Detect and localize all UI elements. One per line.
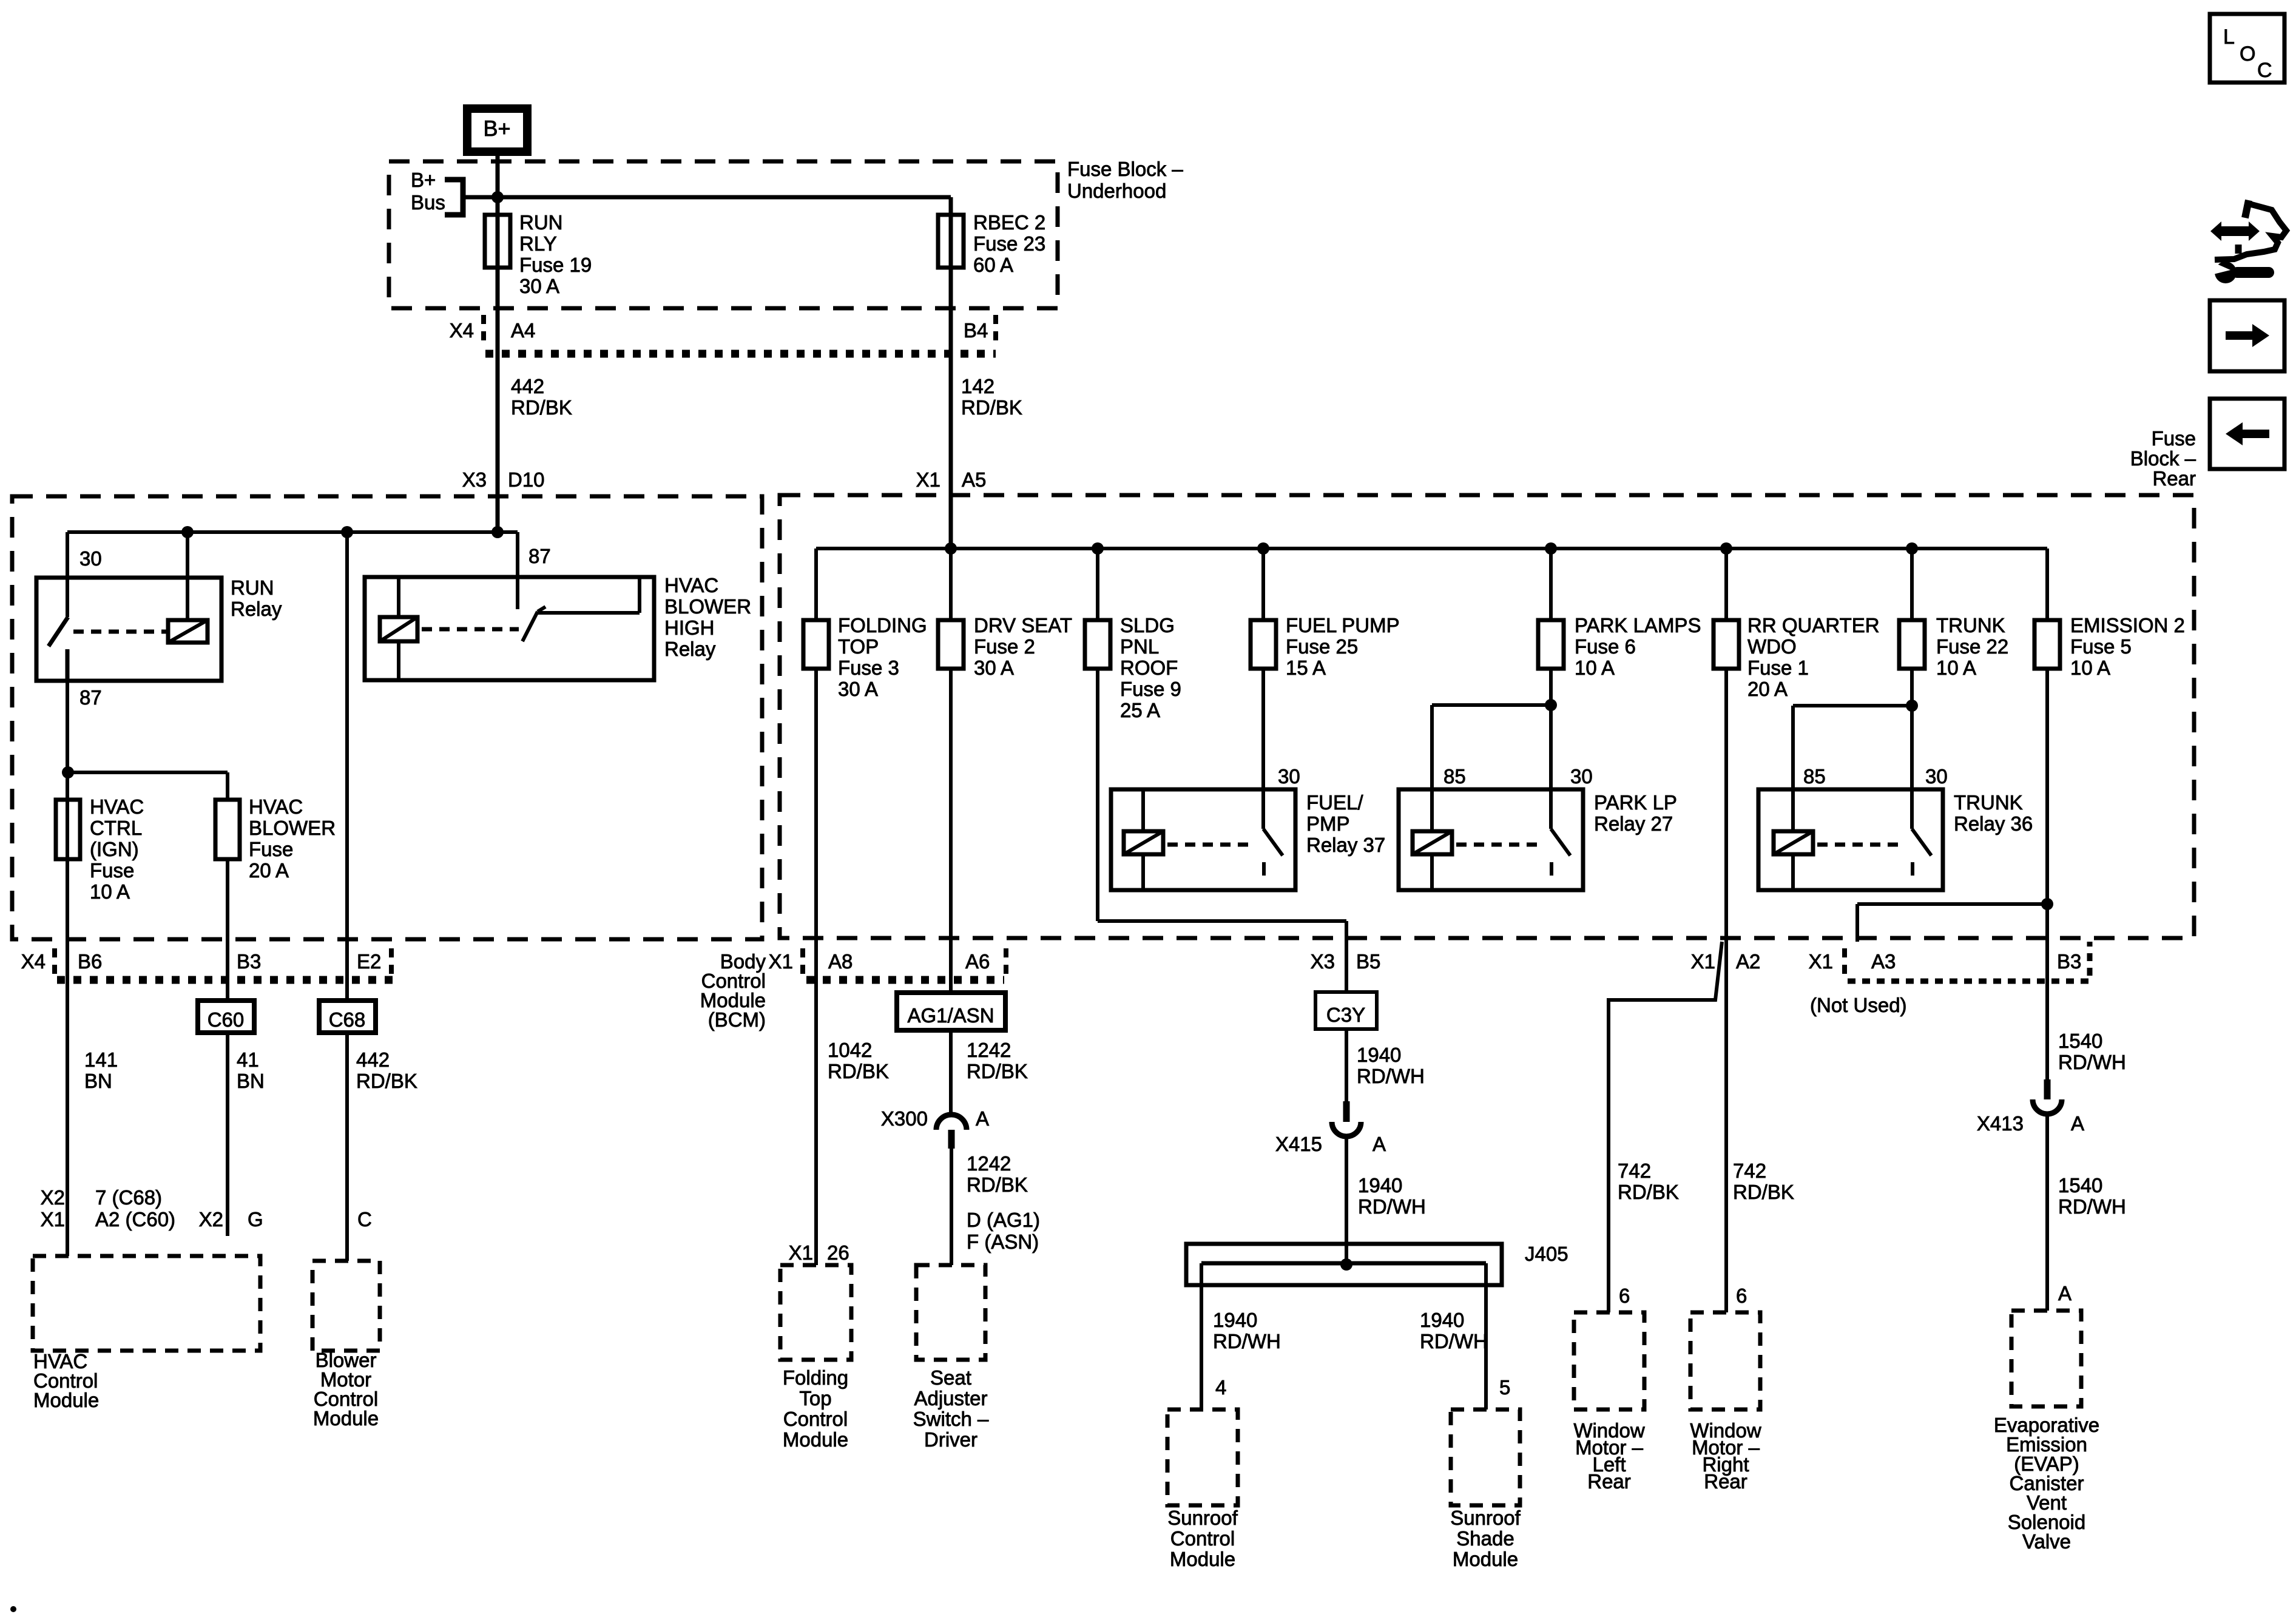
svg-text:C3Y: C3Y [1326,1004,1365,1026]
svg-text:Fuse: Fuse [2152,427,2196,450]
svg-text:HVAC: HVAC [90,795,144,818]
svg-text:(IGN): (IGN) [90,838,139,860]
svg-text:BLOWER: BLOWER [249,817,336,839]
svg-text:141: 141 [84,1048,118,1071]
svg-text:A4: A4 [511,319,535,342]
svg-text:Module: Module [1453,1548,1518,1570]
svg-text:Fuse 22: Fuse 22 [1936,635,2008,658]
svg-text:A2: A2 [1736,950,1760,973]
svg-text:X300: X300 [881,1107,928,1130]
svg-text:RD/WH: RD/WH [1420,1330,1488,1352]
svg-text:742: 742 [1618,1160,1651,1182]
svg-text:1540: 1540 [2058,1030,2102,1052]
svg-text:26: 26 [827,1241,849,1264]
svg-text:C60: C60 [208,1008,245,1031]
svg-text:Fuse 5: Fuse 5 [2070,635,2132,658]
svg-text:A8: A8 [828,950,853,973]
svg-text:Seat: Seat [930,1366,971,1389]
svg-text:15 A: 15 A [1286,657,1326,679]
svg-text:1540: 1540 [2058,1174,2102,1197]
svg-text:Relay: Relay [664,638,716,660]
svg-text:C: C [2257,59,2272,82]
svg-text:85: 85 [1443,765,1466,788]
svg-text:RD/WH: RD/WH [2058,1051,2126,1073]
svg-text:Switch –: Switch – [913,1408,989,1430]
svg-text:Fuse 25: Fuse 25 [1286,635,1358,658]
svg-text:6: 6 [1619,1284,1630,1307]
svg-text:Fuse 1: Fuse 1 [1747,657,1809,679]
svg-text:D (AG1): D (AG1) [967,1209,1040,1231]
svg-text:G: G [248,1208,263,1230]
svg-text:10 A: 10 A [1575,657,1615,679]
svg-text:RD/BK: RD/BK [1733,1181,1794,1203]
svg-text:ROOF: ROOF [1120,657,1178,679]
svg-text:442: 442 [356,1048,390,1071]
svg-text:Relay 36: Relay 36 [1954,812,2033,835]
svg-text:B3: B3 [2057,950,2081,973]
svg-text:Rear: Rear [2152,467,2196,490]
svg-text:(BCM): (BCM) [708,1008,766,1031]
svg-text:10 A: 10 A [2070,657,2110,679]
svg-text:B3: B3 [237,950,261,973]
svg-text:Fuse 6: Fuse 6 [1575,635,1636,658]
svg-text:A3: A3 [1871,950,1896,973]
svg-text:1940: 1940 [1213,1309,1257,1331]
svg-text:RD/WH: RD/WH [2058,1195,2126,1218]
svg-text:X2: X2 [199,1208,223,1230]
svg-text:RUN: RUN [519,211,563,234]
svg-text:25 A: 25 A [1120,699,1160,721]
svg-text:X1: X1 [916,468,940,491]
svg-text:FUEL PUMP: FUEL PUMP [1286,614,1400,636]
svg-text:10 A: 10 A [90,880,130,903]
svg-text:1242: 1242 [967,1152,1011,1175]
svg-text:PMP: PMP [1306,812,1350,835]
svg-text:RD/BK: RD/BK [967,1060,1028,1082]
svg-text:Module: Module [33,1389,99,1411]
svg-text:X3: X3 [462,468,487,491]
svg-text:FOLDING: FOLDING [838,614,927,636]
svg-text:BLOWER: BLOWER [664,595,751,618]
svg-text:X1: X1 [1691,950,1715,973]
svg-text:Fuse 2: Fuse 2 [974,635,1035,658]
svg-text:30: 30 [1570,765,1593,788]
svg-text:Driver: Driver [924,1428,977,1451]
svg-text:HVAC: HVAC [664,574,718,596]
svg-text:20 A: 20 A [1747,678,1788,700]
svg-text:CTRL: CTRL [90,817,142,839]
svg-text:B6: B6 [78,950,102,973]
svg-text:X1: X1 [1809,950,1833,973]
svg-text:41: 41 [237,1048,259,1071]
svg-text:Relay 37: Relay 37 [1306,834,1385,856]
svg-text:Control: Control [783,1408,848,1430]
svg-text:Rear: Rear [1587,1470,1631,1493]
svg-text:RD/BK: RD/BK [828,1060,889,1082]
svg-text:X1: X1 [769,950,793,973]
svg-text:A: A [2071,1112,2084,1135]
svg-text:AG1/ASN: AG1/ASN [907,1004,994,1027]
svg-text:Relay 27: Relay 27 [1594,812,1673,835]
svg-text:PARK LAMPS: PARK LAMPS [1575,614,1701,636]
svg-text:Control: Control [1170,1527,1235,1550]
svg-text:E2: E2 [357,950,381,973]
svg-text:RD/BK: RD/BK [1618,1181,1679,1203]
svg-text:BN: BN [237,1070,265,1092]
svg-text:Underhood: Underhood [1067,180,1166,202]
svg-text:RD/BK: RD/BK [967,1173,1028,1196]
svg-text:A: A [2058,1282,2071,1305]
svg-text:A6: A6 [965,950,990,973]
svg-text:87: 87 [528,545,551,567]
svg-text:WDO: WDO [1747,635,1797,658]
svg-text:J405: J405 [1525,1243,1568,1265]
svg-text:C68: C68 [329,1008,366,1031]
svg-text:EMISSION 2: EMISSION 2 [2070,614,2185,636]
svg-text:X4: X4 [21,950,46,973]
svg-text:X4: X4 [450,319,474,342]
svg-text:Module: Module [1170,1548,1235,1570]
svg-text:30: 30 [79,547,102,570]
svg-text:Rear: Rear [1704,1470,1747,1493]
svg-text:Adjuster: Adjuster [914,1387,987,1409]
svg-text:RD/WH: RD/WH [1213,1330,1281,1352]
svg-text:D10: D10 [508,468,545,491]
svg-text:Sunroof: Sunroof [1167,1507,1238,1529]
svg-text:B+: B+ [411,169,436,191]
svg-text:RLY: RLY [519,232,557,255]
svg-text:Fuse Block –: Fuse Block – [1067,158,1183,180]
svg-text:Fuse: Fuse [249,838,293,860]
svg-text:X1: X1 [789,1241,813,1264]
svg-text:1940: 1940 [1358,1174,1402,1197]
svg-text:RD/BK: RD/BK [511,396,572,419]
svg-text:TOP: TOP [838,635,879,658]
svg-text:B5: B5 [1356,950,1380,973]
svg-text:X2: X2 [41,1186,65,1209]
svg-text:Fuse 3: Fuse 3 [838,657,899,679]
svg-text:4: 4 [1215,1376,1226,1399]
svg-text:X415: X415 [1275,1133,1322,1155]
svg-text:1042: 1042 [828,1039,872,1061]
svg-text:6: 6 [1736,1284,1747,1307]
svg-text:RR QUARTER: RR QUARTER [1747,614,1880,636]
svg-text:A2 (C60): A2 (C60) [95,1208,175,1230]
svg-text:RBEC 2: RBEC 2 [973,211,1045,234]
svg-text:B4: B4 [964,319,988,342]
svg-text:30 A: 30 A [519,275,559,297]
svg-text:TRUNK: TRUNK [1936,614,2005,636]
svg-text:O: O [2240,42,2255,66]
svg-text:TRUNK: TRUNK [1954,791,2023,814]
svg-text:RD/WH: RD/WH [1358,1195,1426,1218]
svg-text:Top: Top [799,1387,831,1409]
svg-text:A: A [1373,1133,1386,1155]
svg-text:BN: BN [84,1070,112,1092]
svg-text:1242: 1242 [967,1039,1011,1061]
svg-text:SLDG: SLDG [1120,614,1175,636]
svg-text:X3: X3 [1311,950,1335,973]
svg-text:30 A: 30 A [974,657,1014,679]
svg-text:1940: 1940 [1357,1044,1401,1066]
svg-text:RUN: RUN [231,576,274,599]
svg-text:A: A [976,1107,989,1130]
svg-text:20 A: 20 A [249,859,289,882]
svg-text:Bus: Bus [411,191,445,214]
svg-text:RD/BK: RD/BK [356,1070,417,1092]
svg-text:(Not Used): (Not Used) [1810,994,1907,1016]
svg-text:Block –: Block – [2130,447,2196,470]
svg-text:142: 142 [961,375,994,397]
svg-text:X1: X1 [41,1208,65,1230]
svg-text:30: 30 [1278,765,1300,788]
svg-text:60 A: 60 A [973,254,1013,276]
svg-text:Sunroof: Sunroof [1450,1507,1521,1529]
svg-text:Valve: Valve [2022,1530,2071,1553]
svg-text:Module: Module [783,1428,848,1451]
svg-text:1940: 1940 [1420,1309,1464,1331]
svg-text:5: 5 [1499,1376,1510,1399]
svg-text:X413: X413 [1977,1112,2024,1135]
svg-text:FUEL/: FUEL/ [1306,791,1363,814]
svg-text:HVAC: HVAC [249,795,303,818]
svg-text:Fuse 23: Fuse 23 [973,232,1045,255]
svg-text:742: 742 [1733,1160,1766,1182]
svg-text:7 (C68): 7 (C68) [95,1186,162,1209]
svg-text:10 A: 10 A [1936,657,1976,679]
svg-text:L: L [2223,25,2235,49]
svg-text:C: C [357,1208,372,1230]
svg-text:DRV SEAT: DRV SEAT [974,614,1072,636]
svg-text:442: 442 [511,375,544,397]
svg-text:A5: A5 [962,468,986,491]
svg-text:Fuse 9: Fuse 9 [1120,678,1181,700]
svg-text:Module: Module [313,1407,379,1430]
svg-text:30: 30 [1925,765,1948,788]
svg-text:PARK LP: PARK LP [1594,791,1677,814]
svg-text:F (ASN): F (ASN) [967,1230,1039,1253]
svg-text:30 A: 30 A [838,678,878,700]
svg-text:Folding: Folding [783,1366,848,1389]
svg-text:Fuse 19: Fuse 19 [519,254,592,276]
svg-text:85: 85 [1803,765,1826,788]
svg-text:RD/BK: RD/BK [961,396,1022,419]
svg-text:B+: B+ [483,116,510,141]
svg-text:RD/WH: RD/WH [1357,1065,1425,1087]
svg-text:Relay: Relay [231,598,282,620]
svg-text:Fuse: Fuse [90,859,134,882]
svg-text:87: 87 [79,686,102,709]
svg-text:HIGH: HIGH [664,616,715,639]
svg-text:PNL: PNL [1120,635,1159,658]
svg-text:Shade: Shade [1456,1527,1514,1550]
